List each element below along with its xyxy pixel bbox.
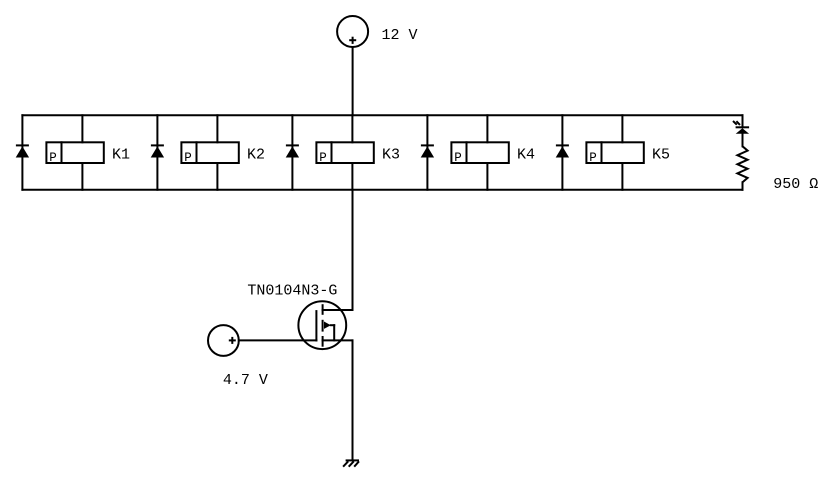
label K5 [652,147,670,164]
relay coil K2 [181,115,238,190]
wire D6 to R1 [742,134,744,147]
svg-text:K4: K4 [517,147,535,164]
svg-text:P: P [184,151,192,165]
svg-text:P: P [319,151,327,165]
svg-text:950 Ω: 950 Ω [773,176,818,193]
label 12 V [382,27,418,44]
label P of K2 [184,151,192,165]
label 4.7 V [223,372,268,389]
wire bottom bus [22,189,742,191]
transistor Q1 TN0104N3-G [298,301,352,349]
resistor R1 950 ohm [737,146,747,190]
label P of K5 [589,151,597,165]
diode D5 [556,115,569,190]
label P of K4 [454,151,462,165]
relay coil K3 [316,115,373,190]
voltage source V1 12 V [337,16,368,47]
label 950 ohm [773,176,818,193]
diode D4 [421,115,434,190]
svg-text:K3: K3 [382,147,400,164]
wire V1 to top bus [352,47,354,115]
svg-text:K5: K5 [652,147,670,164]
svg-text:K2: K2 [247,147,265,164]
label P of K3 [319,151,327,165]
label K1 [112,147,130,164]
ground [343,460,359,466]
svg-text:12 V: 12 V [382,27,418,44]
label TN0104N3-G [247,283,337,300]
svg-text:P: P [454,151,462,165]
wire source to ground [352,340,354,460]
svg-text:TN0104N3-G: TN0104N3-G [247,283,337,300]
label K3 [382,147,400,164]
voltage source V2 4.7 V [208,325,239,356]
relay coil K4 [451,115,508,190]
label K2 [247,147,265,164]
svg-text:P: P [589,151,597,165]
LED D6 [733,115,749,134]
relay coil K1 [46,115,103,190]
svg-text:P: P [49,151,57,165]
diode D3 [286,115,299,190]
svg-text:K1: K1 [112,147,130,164]
wire top bus [22,114,742,116]
label P of K1 [49,151,57,165]
diode D2 [151,115,164,190]
wire drain to bottom bus [352,190,354,310]
relay coil K5 [586,115,643,190]
label K4 [517,147,535,164]
svg-text:4.7 V: 4.7 V [223,372,268,389]
wire V2 to gate [239,339,317,341]
diode D1 [16,115,29,190]
